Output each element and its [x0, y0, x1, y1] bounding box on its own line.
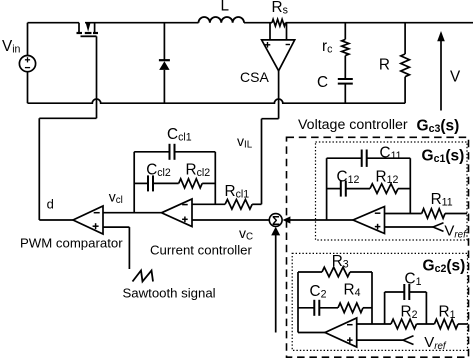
svg-text:V: V	[450, 69, 461, 86]
resistor R	[401, 54, 410, 77]
svg-text:R2: R2	[401, 304, 418, 321]
wire	[458, 323, 468, 325]
wire vC	[192, 219, 269, 221]
wire top rail mid	[85, 22, 199, 24]
resistor Rcl1	[225, 200, 252, 210]
svg-text:d: d	[47, 196, 54, 211]
svg-text:Voltage controller: Voltage controller	[298, 117, 408, 133]
svg-text:R12: R12	[376, 169, 399, 186]
wire	[134, 182, 148, 184]
resistor Rcl2	[179, 179, 203, 188]
wire	[327, 188, 341, 190]
capacitor C2	[313, 300, 315, 316]
svg-text:Vref: Vref	[444, 222, 467, 240]
wire	[326, 158, 328, 220]
arrow V	[440, 40, 442, 111]
wire	[153, 182, 179, 184]
source Vin	[19, 56, 35, 72]
svg-text:Vin: Vin	[2, 38, 21, 55]
wire	[27, 23, 29, 56]
wire	[344, 23, 346, 40]
wire	[297, 272, 299, 333]
svg-text:Ccl1: Ccl1	[167, 126, 192, 143]
wire	[409, 291, 426, 293]
svg-text:R1: R1	[439, 304, 456, 321]
resistor R3	[322, 267, 350, 277]
wire	[298, 307, 314, 309]
wire gate	[96, 36, 98, 118]
svg-text:vC: vC	[239, 225, 253, 242]
box Gc3	[287, 137, 469, 357]
wire	[244, 22, 272, 24]
diode D1	[159, 59, 170, 61]
wire	[417, 323, 435, 325]
wire	[202, 182, 215, 184]
box Gc2	[292, 253, 467, 350]
capacitor C11	[361, 150, 363, 167]
wire	[128, 227, 130, 269]
wire vcl	[103, 212, 162, 214]
wire	[445, 213, 467, 215]
wire	[298, 271, 322, 273]
wire	[363, 307, 372, 309]
svg-text:rc: rc	[322, 38, 333, 55]
wire	[346, 188, 370, 190]
svg-text:Current controller: Current controller	[150, 243, 252, 258]
svg-text:Rcl1: Rcl1	[225, 183, 250, 200]
wire	[344, 84, 346, 104]
terminal Vref1	[433, 223, 444, 232]
svg-text:vcl: vcl	[109, 189, 123, 206]
svg-text:CSA: CSA	[240, 69, 269, 85]
op-amp U-Gc2	[325, 318, 357, 347]
wire	[175, 151, 216, 153]
svg-text:R4: R4	[344, 282, 361, 299]
capacitor C1	[403, 284, 405, 300]
svg-text:Gc3(s): Gc3(s)	[417, 118, 460, 136]
wire	[357, 339, 403, 341]
svg-text:R: R	[379, 57, 390, 74]
capacitor C	[338, 78, 353, 80]
wire	[425, 292, 427, 324]
resistor R11	[422, 209, 445, 219]
wire top rail right	[286, 22, 474, 24]
wire	[134, 151, 169, 153]
wire	[192, 203, 225, 205]
op-amp PWM comparator	[73, 206, 103, 234]
svg-text:Sawtooth signal: Sawtooth signal	[123, 286, 216, 301]
sawtooth signal	[133, 271, 154, 282]
wire	[298, 332, 325, 334]
wire	[385, 226, 434, 228]
resistor rc	[342, 39, 349, 55]
box Gc1	[316, 142, 468, 240]
wire	[385, 291, 405, 293]
wire	[398, 188, 410, 190]
wire	[404, 77, 406, 104]
svg-text:Σ: Σ	[272, 213, 280, 228]
resistor R2	[391, 319, 417, 329]
svg-text:Gc2(s): Gc2(s)	[423, 258, 466, 276]
wire	[275, 235, 277, 333]
wire	[39, 219, 73, 221]
wire	[409, 158, 411, 213]
wire	[319, 307, 338, 309]
wire	[39, 117, 96, 119]
svg-text:Ccl2: Ccl2	[146, 162, 171, 179]
svg-text:C1: C1	[405, 271, 422, 288]
resistor R1	[434, 319, 458, 329]
wire	[103, 226, 129, 228]
wire	[344, 56, 346, 79]
wire	[262, 118, 279, 120]
svg-text:C11: C11	[380, 145, 402, 162]
arrow into summer	[271, 227, 280, 236]
svg-text:C: C	[317, 74, 328, 91]
wire	[290, 219, 353, 221]
svg-text:C2: C2	[310, 283, 327, 300]
wire	[27, 72, 29, 104]
capacitor Ccl2	[147, 175, 149, 191]
wire	[261, 119, 263, 205]
wire	[252, 203, 261, 205]
wire	[367, 157, 411, 159]
wire	[38, 118, 40, 220]
summer node	[269, 214, 282, 227]
wire	[269, 23, 271, 40]
capacitor Ccl1	[169, 144, 171, 160]
svg-text:R11: R11	[431, 191, 453, 208]
resistor R4	[338, 303, 363, 313]
wire	[385, 213, 422, 215]
terminal Vref2	[403, 336, 414, 345]
op-amp CSA	[262, 40, 295, 71]
resistor Rs	[272, 19, 286, 26]
svg-text:Rs: Rs	[272, 0, 288, 16]
wire bottom rail	[28, 99, 406, 103]
wire	[163, 70, 165, 103]
wire	[286, 23, 288, 40]
wire	[357, 323, 391, 325]
wire	[404, 23, 406, 54]
wire	[350, 271, 372, 273]
wire	[214, 152, 216, 205]
wire	[133, 152, 135, 213]
transistor Q1	[78, 23, 80, 33]
svg-text:Rcl2: Rcl2	[186, 162, 211, 179]
capacitor C12	[340, 181, 342, 197]
svg-text:Gc1(s): Gc1(s)	[422, 148, 465, 166]
op-amp current controller	[162, 199, 193, 227]
svg-text:Vref: Vref	[424, 334, 447, 352]
op-amp U-Gc1	[353, 207, 385, 234]
svg-text:PWM comparator: PWM comparator	[20, 236, 123, 251]
resistor R12	[370, 184, 398, 194]
inductor L	[199, 17, 245, 23]
wire vIL	[278, 71, 280, 119]
svg-text:vIL: vIL	[237, 133, 253, 150]
wire	[371, 272, 373, 324]
svg-text:L: L	[221, 0, 230, 15]
wire	[163, 23, 165, 61]
wire	[327, 157, 362, 159]
wire top rail left	[28, 22, 80, 24]
arrow into summer	[283, 216, 291, 223]
wire	[384, 292, 386, 324]
